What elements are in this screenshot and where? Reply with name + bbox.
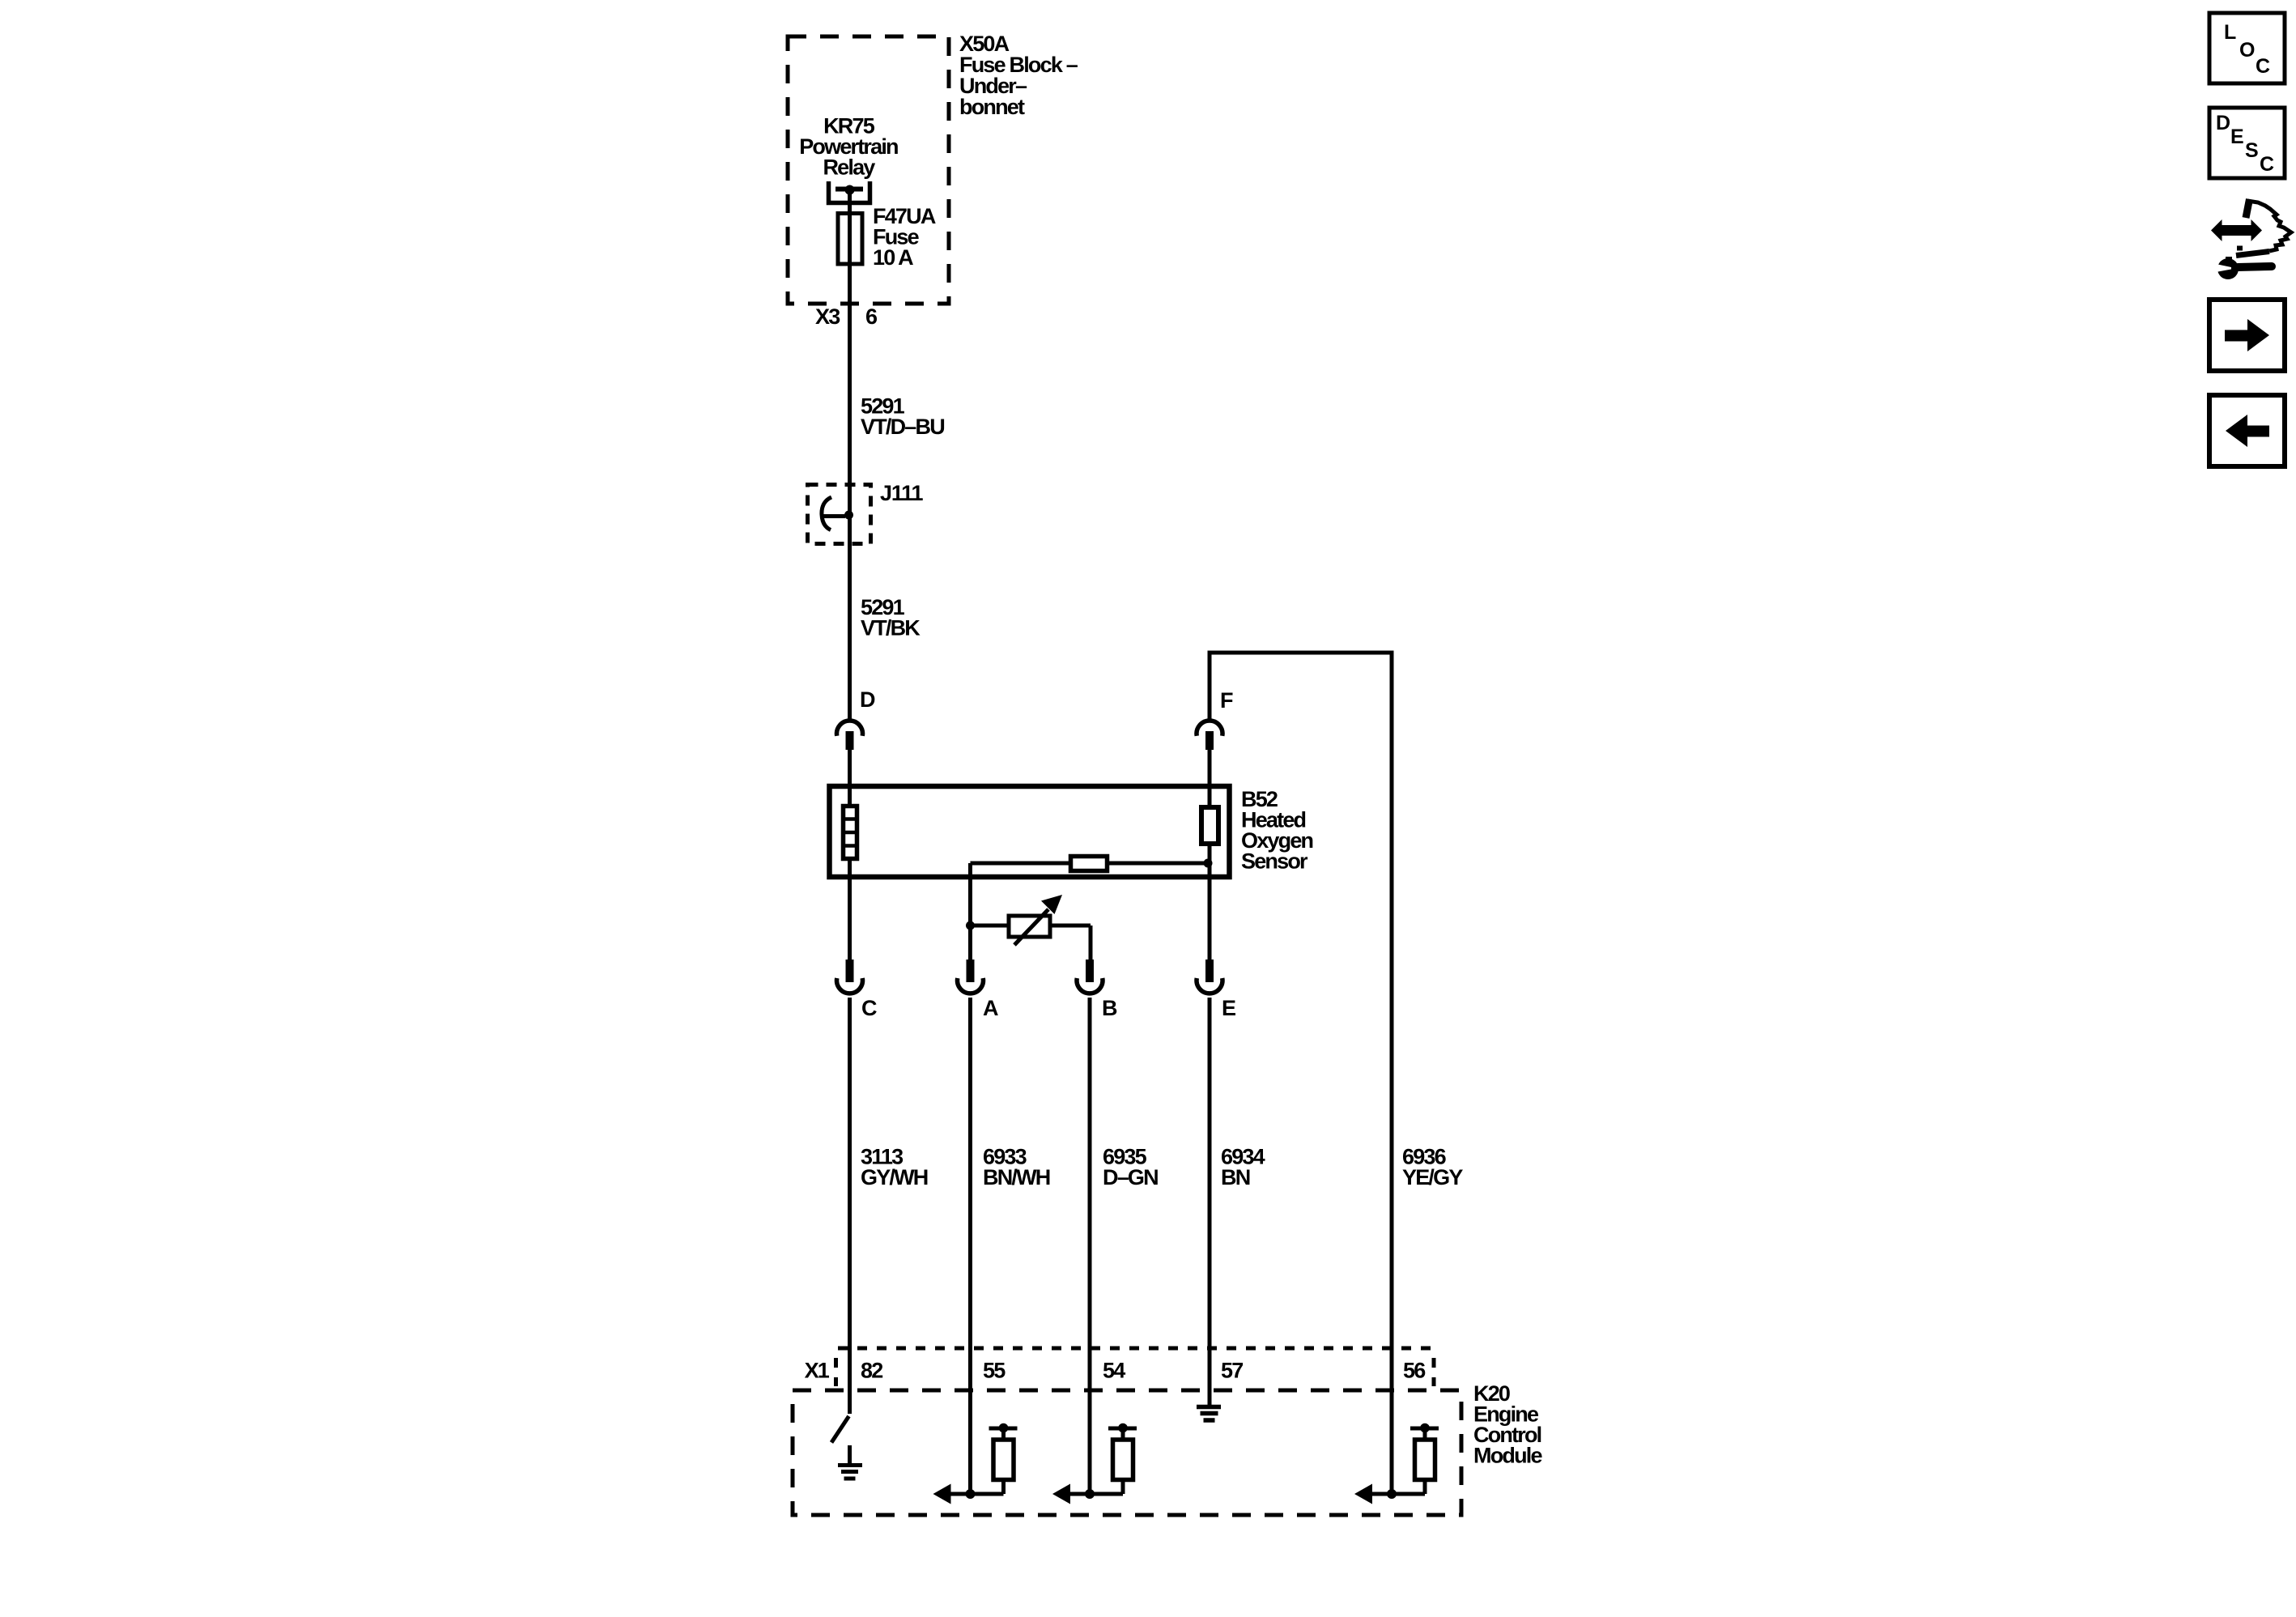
svg-text:D: D: [2216, 112, 2230, 134]
pullup resistor ECM pin 56: [1410, 1423, 1439, 1494]
ground in ECM under 57: [1197, 1407, 1221, 1421]
svg-text:Relay: Relay: [823, 155, 875, 180]
svg-text:10 A: 10 A: [873, 245, 913, 270]
svg-text:D–GN: D–GN: [1103, 1165, 1158, 1189]
wire sensor internal horizontal: [971, 862, 1210, 866]
svg-text:bonnet: bonnet: [959, 95, 1025, 119]
svg-text:E: E: [1222, 996, 1235, 1020]
label 5291 VT/BK: [861, 595, 921, 640]
icon arrow right box: [2209, 300, 2285, 371]
label F47UA Fuse 10 A: [873, 204, 936, 270]
svg-text:VT/D–BU: VT/D–BU: [861, 415, 944, 439]
svg-text:57: 57: [1221, 1359, 1243, 1383]
label 5291 VT/D-BU: [861, 394, 944, 440]
variable resistor (thermistor): [1009, 895, 1062, 945]
pullup resistor ECM pin 54: [1108, 1423, 1137, 1494]
wire from relay to fuse: [848, 191, 852, 321]
label X50A Fuse Block - Underbonnet: [959, 32, 1078, 119]
sensing element in B52: [1201, 807, 1218, 844]
connector D: [836, 721, 862, 750]
svg-text:X1: X1: [805, 1359, 830, 1383]
arrow to ECM logic pin 55: [933, 1484, 1004, 1504]
label 6935 D-GN: [1103, 1145, 1158, 1190]
svg-text:54: 54: [1103, 1359, 1125, 1383]
svg-text:F: F: [1220, 688, 1233, 713]
icon arrow left box: [2209, 395, 2285, 466]
svg-text:A: A: [983, 996, 998, 1020]
svg-text:B: B: [1102, 996, 1117, 1020]
wire 5291 VT/BK: [848, 515, 852, 721]
pullup resistor ECM pin 55: [989, 1423, 1018, 1494]
fuse block X50A dashed box: [788, 36, 949, 304]
wire variable resistor run: [971, 926, 1091, 960]
svg-text:Sensor: Sensor: [1241, 849, 1308, 874]
arrow to ECM logic pin 56: [1354, 1484, 1425, 1504]
svg-text:C: C: [861, 996, 877, 1020]
icon repair wrench: [2216, 257, 2272, 279]
label 6936 YE/GY: [1402, 1145, 1463, 1190]
wire 6935 D-GN: [1088, 998, 1092, 1494]
ECM K20 dashed box: [793, 1390, 1461, 1515]
connector E: [1197, 960, 1222, 994]
switch in ECM pin 82: [831, 1416, 849, 1443]
svg-text:56: 56: [1403, 1359, 1426, 1383]
svg-text:6: 6: [865, 304, 878, 329]
wire 6936 top run: [1210, 653, 1392, 1494]
wire 6933 BN/WH: [968, 998, 972, 1494]
junction dot at A branch: [966, 921, 975, 930]
connector A: [958, 960, 984, 994]
icon LOC box: [2209, 13, 2285, 83]
fuse F47UA: [838, 214, 862, 265]
wire 5291 VT/D-BU: [848, 321, 852, 515]
icon repair double arrow: [2211, 219, 2262, 241]
label 6934 BN: [1221, 1145, 1265, 1190]
label KR75 Powertrain Relay: [799, 114, 898, 180]
svg-text:J111: J111: [880, 481, 923, 505]
svg-text:L: L: [2224, 21, 2236, 44]
svg-text:BN: BN: [1221, 1165, 1250, 1189]
svg-text:C: C: [2256, 55, 2270, 78]
splice J111: [808, 485, 871, 544]
wire F to E through sensor: [1208, 750, 1212, 960]
connector X1 dotted row: [836, 1348, 1435, 1386]
label 6933 BN/WH: [983, 1145, 1050, 1190]
svg-text:E: E: [2230, 126, 2243, 148]
svg-text:D: D: [860, 687, 875, 712]
connector B: [1077, 960, 1103, 994]
label B52 Heated Oxygen Sensor: [1241, 787, 1313, 874]
arrow to ECM logic pin 54: [1052, 1484, 1123, 1504]
wire 6934 BN: [1208, 998, 1212, 1405]
svg-text:BN/WH: BN/WH: [983, 1165, 1050, 1189]
oxygen sensor B52 box: [830, 786, 1230, 877]
ground in ECM under 82: [838, 1445, 862, 1479]
svg-text:55: 55: [983, 1359, 1006, 1383]
icon DESC box: [2209, 108, 2285, 178]
svg-text:S: S: [2245, 139, 2258, 162]
icon repair part outline: [2236, 199, 2291, 256]
svg-text:C: C: [2260, 153, 2274, 176]
svg-text:Module: Module: [1473, 1444, 1542, 1468]
connector C: [836, 960, 862, 994]
label 3113 GY/WH: [861, 1145, 928, 1190]
svg-text:VT/BK: VT/BK: [861, 616, 921, 640]
svg-text:YE/GY: YE/GY: [1402, 1165, 1463, 1189]
wire 3113 GY/WH: [848, 998, 852, 1414]
wire sensor signal branch: [968, 863, 972, 960]
wire D to sensor: [848, 750, 852, 960]
svg-text:GY/WH: GY/WH: [861, 1165, 928, 1189]
connector F: [1197, 721, 1222, 750]
heater element in B52: [842, 806, 858, 859]
resistor in B52: [1071, 857, 1108, 871]
svg-text:X3: X3: [815, 304, 840, 329]
junction dot at E wire: [1204, 859, 1213, 868]
svg-text:O: O: [2239, 39, 2255, 62]
label connector X3 pin 6: [815, 304, 878, 329]
svg-text:82: 82: [861, 1359, 882, 1383]
label K20 Engine Control Module: [1473, 1381, 1542, 1468]
relay KR75 contact: [829, 181, 870, 203]
